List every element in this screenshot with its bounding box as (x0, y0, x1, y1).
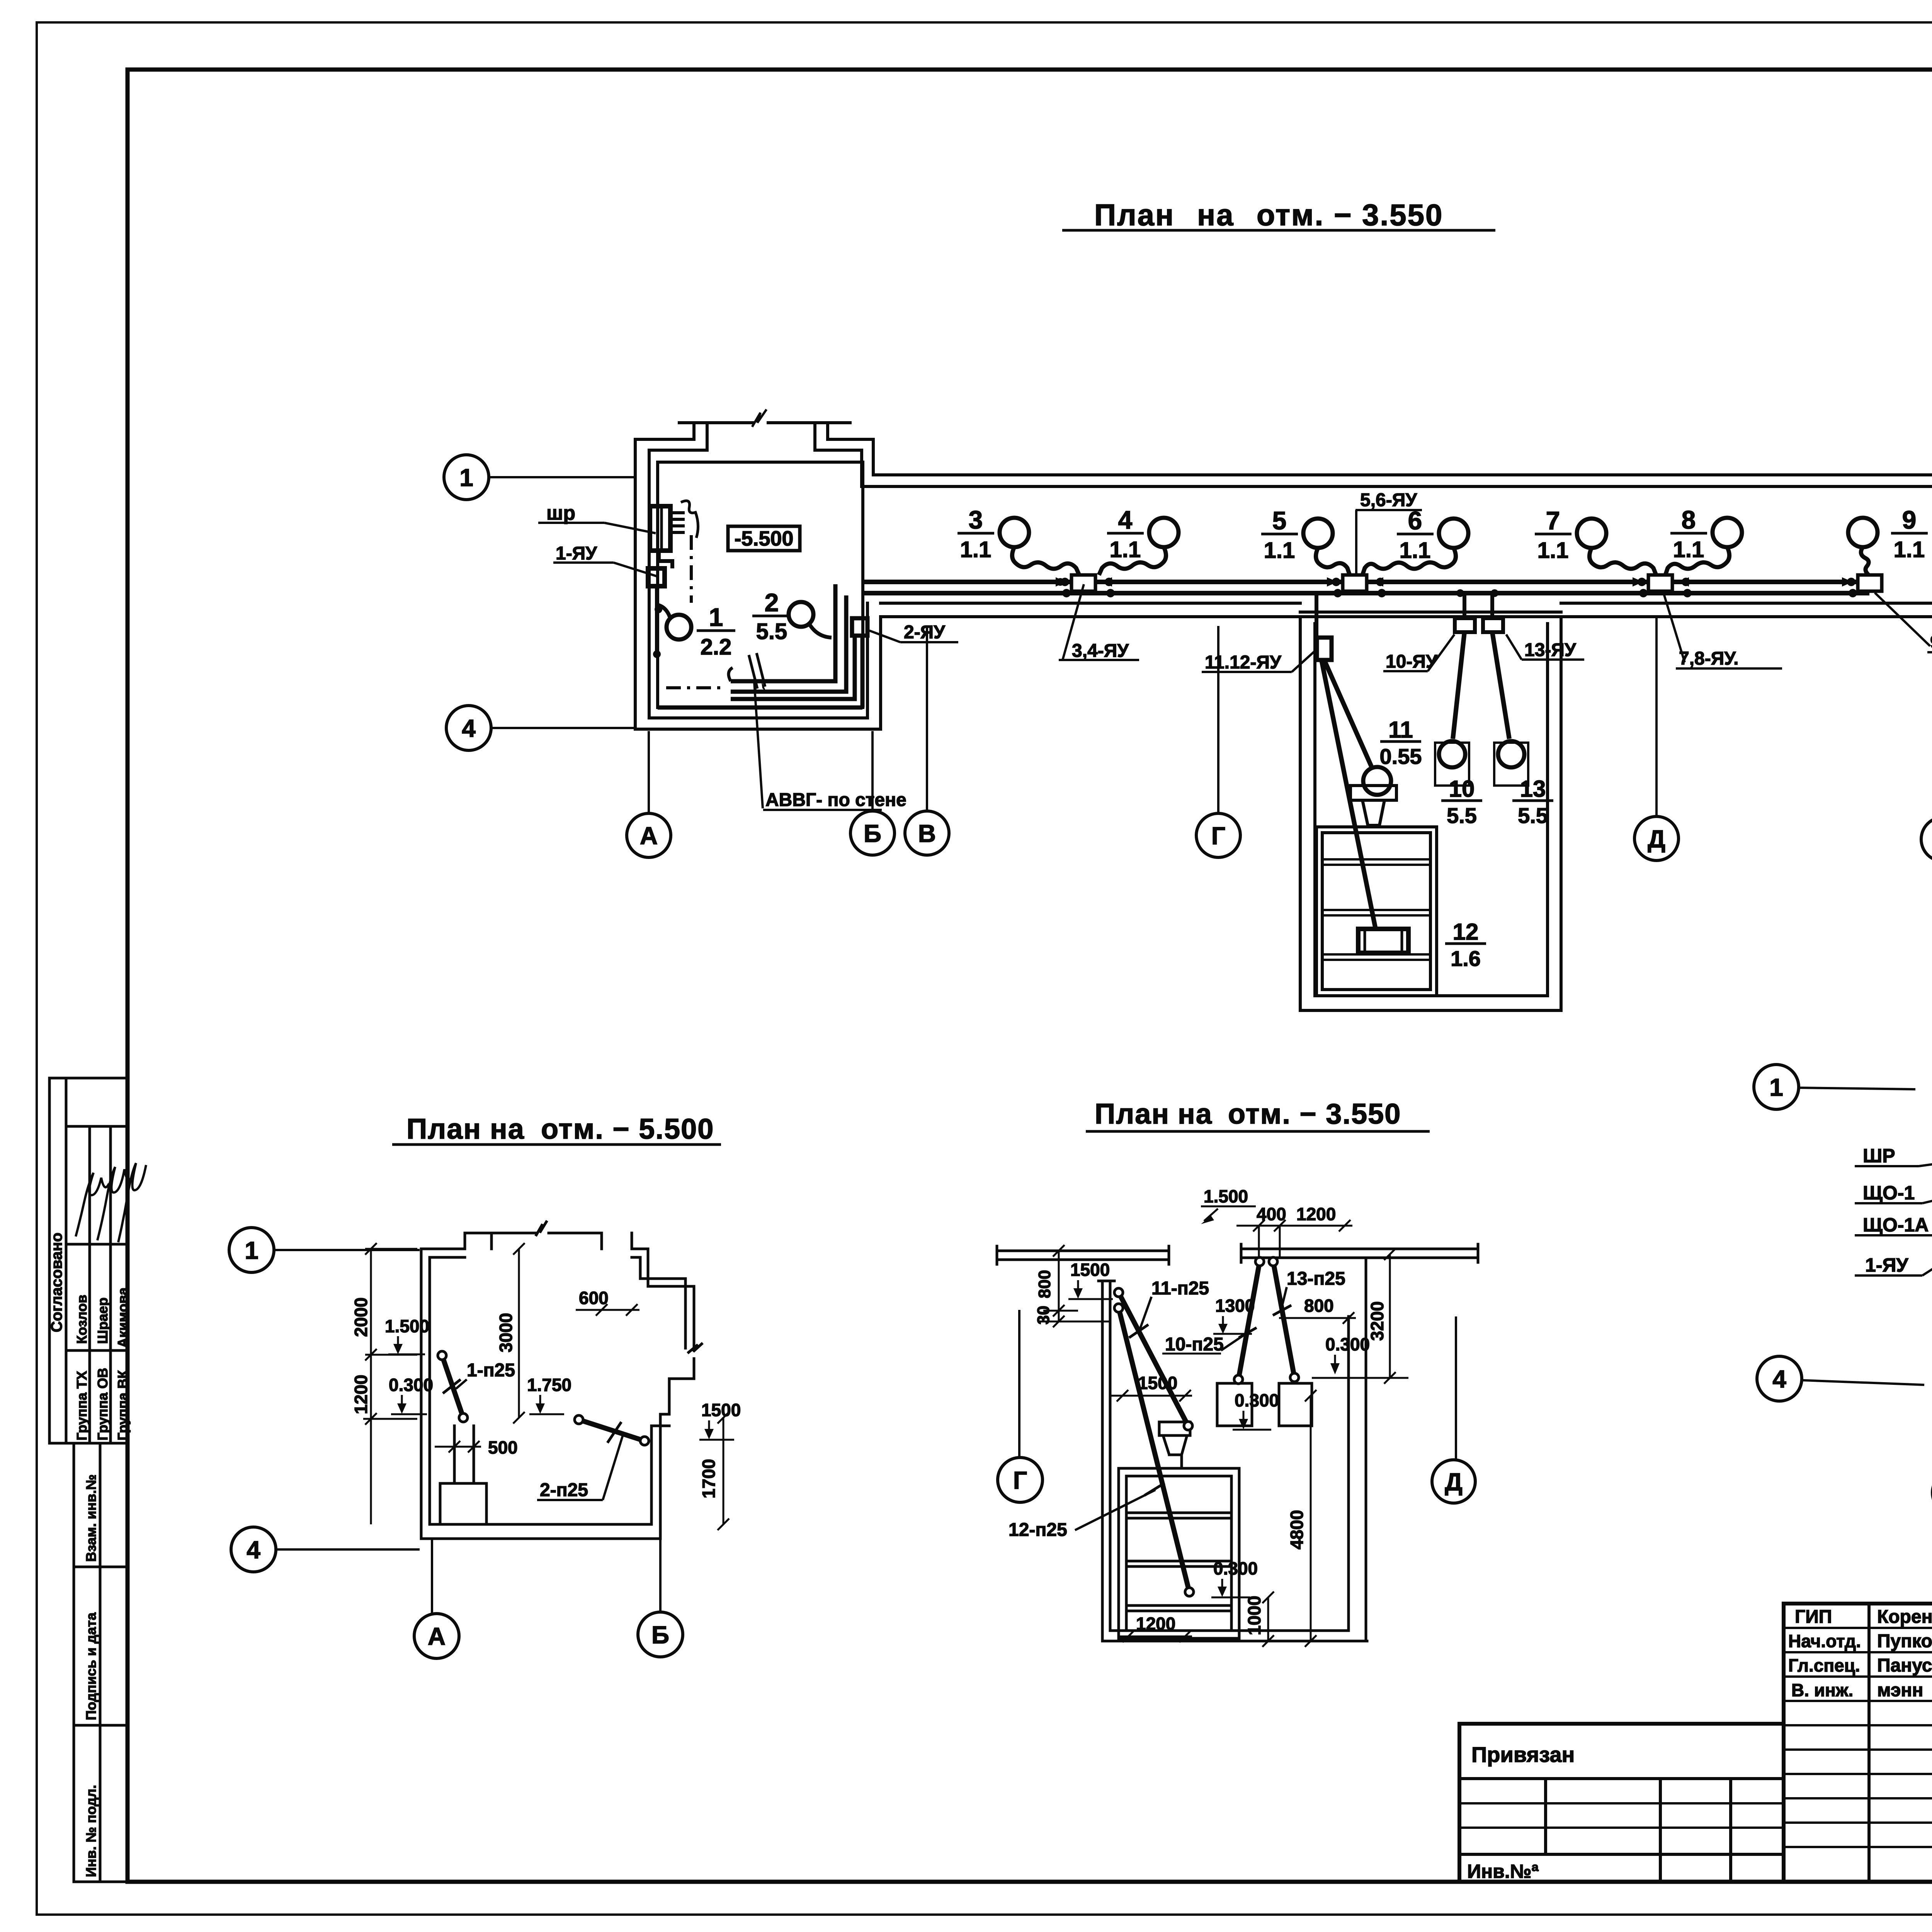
svg-text:600: 600 (579, 1288, 609, 1308)
svg-text:на: на (490, 1113, 525, 1145)
plan4 grid circle 1 (1754, 1065, 1915, 1109)
motor 2 (789, 602, 813, 627)
cabinet ШР (650, 506, 670, 551)
box 5,6-ЯУ (1343, 575, 1367, 591)
svg-text:на: на (1197, 198, 1235, 232)
motor 13 enclosure (1494, 743, 1528, 786)
svg-text:400: 400 (1257, 1204, 1286, 1224)
plan2 pedestal (440, 1483, 486, 1524)
svg-text:1500: 1500 (701, 1400, 741, 1420)
svg-text:Взам. инв.№: Взам. инв.№ (83, 1475, 99, 1562)
motor 9 cable (1861, 547, 1869, 575)
motor 10 enclosure (1435, 743, 1469, 786)
cable bundle bottom of pump room (731, 584, 835, 681)
svg-text:Группа ОВ: Группа ОВ (95, 1368, 111, 1440)
svg-text:Козлов: Козлов (74, 1295, 90, 1344)
corridor top wall inner (862, 485, 1932, 488)
elevation box -5.500 (728, 526, 800, 551)
corridor bottom wall inner (881, 602, 1932, 605)
plan2 inner wall (430, 1257, 651, 1524)
svg-text:1-ЯУ: 1-ЯУ (556, 543, 597, 564)
cable hook (729, 668, 733, 681)
svg-text:В: В (918, 820, 936, 847)
motor 12 (1358, 929, 1408, 953)
corridor bottom wall outer (881, 615, 1932, 618)
stamp staff table (1784, 1604, 1932, 1882)
switch 13-п25 (1273, 1262, 1294, 1378)
plan2 wall tower 1 (465, 1233, 492, 1249)
svg-text:0.300: 0.300 (1235, 1390, 1279, 1410)
side stamp upper box (49, 1078, 128, 1443)
motor 4 (1149, 518, 1179, 547)
svg-text:3,4-ЯУ: 3,4-ЯУ (1072, 641, 1129, 661)
svg-text:7,8-ЯУ.: 7,8-ЯУ. (1679, 648, 1738, 669)
dash-dot cable on wall vertical (690, 535, 693, 603)
grid circle Е (1921, 707, 1932, 861)
svg-text:9-ЯУ: 9-ЯУ (1930, 632, 1932, 653)
privyazan table (1459, 1724, 1784, 1882)
SIDE TABLE (49, 1078, 128, 1882)
svg-text:Нач.отд.: Нач.отд. (1788, 1631, 1861, 1651)
plan3 hopper pedestal (1159, 1422, 1190, 1435)
hopper pedestal (1350, 786, 1396, 800)
pump room wall: thin top line with break (679, 421, 850, 424)
svg-text:12: 12 (1453, 919, 1479, 945)
junction dot 3 (1491, 589, 1498, 597)
svg-text:ШР: ШР (1863, 1145, 1895, 1167)
svg-text:8: 8 (1682, 505, 1696, 534)
gallery room outer wall (1300, 617, 1561, 1010)
ШР bracket curl (681, 501, 698, 538)
svg-text:1-п25: 1-п25 (467, 1360, 515, 1381)
cable drop to 13-ЯУ (1490, 595, 1494, 618)
svg-text:1.750: 1.750 (527, 1375, 571, 1395)
svg-text:ЩО-1: ЩО-1 (1863, 1182, 1915, 1204)
svg-text:Согласовано: Согласовано (48, 1233, 65, 1332)
svg-text:800: 800 (1035, 1270, 1054, 1298)
svg-text:ГИП: ГИП (1795, 1607, 1832, 1627)
grid circle В (905, 626, 949, 855)
grid circle Г (1196, 626, 1240, 857)
plan3 bin outer (1119, 1468, 1239, 1638)
svg-text:А: А (428, 1622, 446, 1650)
plan3 bin shelves (1126, 1513, 1231, 1611)
plan -5.500 title underline (392, 1143, 721, 1146)
svg-text:5: 5 (1272, 506, 1287, 535)
pump room wall tower 2 (815, 423, 828, 450)
corridor top wall outer (873, 473, 1932, 476)
svg-text:Инв.№ª: Инв.№ª (1467, 1861, 1539, 1882)
svg-text:9: 9 (1902, 505, 1917, 534)
svg-text:1.1: 1.1 (1400, 538, 1431, 563)
corridor cable line upper (864, 580, 1869, 584)
plan3 right beam (1241, 1244, 1478, 1262)
plan3 bin inner (1126, 1476, 1231, 1631)
box 2-ЯУ (852, 618, 867, 636)
svg-text:Коренков: Коренков (1877, 1607, 1932, 1627)
svg-text:1-ЯУ: 1-ЯУ (1865, 1254, 1908, 1276)
svg-text:1: 1 (245, 1236, 259, 1264)
svg-text:1700: 1700 (699, 1459, 719, 1498)
plan3 left beam (997, 1246, 1169, 1264)
junction dot 1 (1056, 578, 1064, 586)
gallery room inner wall (1315, 624, 1548, 996)
svg-text:План: План (1095, 1098, 1170, 1130)
svg-text:1.1: 1.1 (1537, 538, 1569, 563)
dash-dot cable on wall horizontal (666, 686, 726, 689)
plan3 left wall (1099, 1281, 1114, 1641)
svg-text:АВВГ- по стене: АВВГ- по стене (765, 790, 906, 810)
svg-text:1.1: 1.1 (1673, 537, 1704, 562)
svg-text:Панус: Панус (1877, 1655, 1932, 1676)
svg-text:Гл.спец.: Гл.спец. (1788, 1655, 1860, 1675)
switch 12-п25 (1119, 1308, 1189, 1592)
svg-text:1.1: 1.1 (960, 537, 992, 562)
plan3 boxes of motors 10 13 (1217, 1383, 1252, 1426)
motor 13 (1498, 741, 1524, 767)
motor 9 (1848, 518, 1878, 547)
svg-text:Г: Г (1013, 1466, 1027, 1494)
plan4 grid circle 4 (1757, 1356, 1924, 1401)
svg-text:11: 11 (1388, 717, 1413, 743)
svg-text:800: 800 (1304, 1296, 1334, 1316)
svg-text:Группа ВК: Группа ВК (115, 1370, 131, 1440)
svg-text:1300: 1300 (1215, 1296, 1255, 1316)
svg-text:1500: 1500 (1070, 1260, 1110, 1280)
cable 10-ЯУ to motor 10 (1453, 632, 1464, 739)
svg-text:отм. − 3.550: отм. − 3.550 (1257, 198, 1443, 232)
svg-text:Б: Б (864, 820, 881, 847)
bin outer (1316, 827, 1437, 996)
svg-text:ЩО-1А: ЩО-1А (1863, 1214, 1929, 1236)
svg-text:5,6-ЯУ: 5,6-ЯУ (1360, 490, 1417, 510)
svg-text:0.300: 0.300 (1213, 1558, 1258, 1578)
svg-text:0.300: 0.300 (389, 1375, 433, 1395)
svg-text:13: 13 (1520, 776, 1546, 802)
switch 2-п25 (579, 1420, 645, 1441)
pump room outer wall (635, 439, 881, 729)
switch 1-п25 (442, 1355, 463, 1418)
plan3 right wall (1349, 1259, 1366, 1641)
motor 6 (1439, 519, 1468, 548)
plan2 grid circle Б (638, 1540, 683, 1657)
cable drop to 10-ЯУ (1463, 595, 1466, 618)
motor 5 cable (1316, 548, 1350, 575)
bin inner (1322, 833, 1430, 990)
cable break arrows (749, 653, 765, 689)
svg-text:5.5: 5.5 (756, 619, 787, 644)
svg-text:1.6: 1.6 (1451, 946, 1481, 971)
svg-text:0.55: 0.55 (1380, 744, 1422, 769)
svg-text:3200: 3200 (1367, 1301, 1387, 1341)
side stamp lower box (74, 1443, 128, 1882)
plan2 right wall upper (640, 1249, 694, 1414)
svg-text:11-п25: 11-п25 (1151, 1278, 1209, 1299)
plan2 conduit lines to pedestal (454, 1426, 474, 1483)
svg-text:1.500: 1.500 (385, 1316, 429, 1336)
grid circle 4 (446, 706, 634, 750)
plan2 thin top line with break (465, 1232, 602, 1235)
svg-text:1.1: 1.1 (1264, 538, 1295, 563)
plan3 grid circle Г (998, 1310, 1043, 1502)
box 10-ЯУ (1455, 618, 1475, 632)
cable step ШР to 1-ЯУ (659, 551, 672, 568)
svg-text:шр: шр (546, 502, 575, 524)
svg-text:1: 1 (459, 464, 473, 492)
plan3 hopper funnel (1163, 1435, 1187, 1468)
svg-text:1: 1 (709, 603, 723, 631)
plan2 left dim line (363, 1243, 417, 1524)
svg-text:1200: 1200 (1296, 1204, 1336, 1224)
svg-text:2-ЯУ: 2-ЯУ (904, 622, 946, 643)
svg-text:В. инж.: В. инж. (1791, 1680, 1853, 1700)
pump room pit outline (658, 462, 863, 707)
svg-text:на: на (1178, 1098, 1213, 1130)
hopper funnel (1362, 800, 1384, 825)
motor 2 cable tail (809, 624, 832, 638)
box 7,8-ЯУ (1648, 575, 1672, 591)
plan2 wall break symbol (536, 1222, 546, 1235)
svg-text:2: 2 (765, 588, 779, 617)
motor 1 (667, 615, 691, 639)
svg-text:Пупков: Пупков (1877, 1631, 1932, 1651)
plan2 grid circle А (414, 1540, 459, 1658)
svg-text:Подпись и дата: Подпись и дата (83, 1612, 99, 1720)
bin shelves (1322, 859, 1430, 960)
svg-text:4: 4 (1118, 505, 1133, 534)
cable arrows at boxes (1056, 577, 1853, 587)
corridor cable line lower (864, 591, 1869, 595)
plan2 grid circle 1 (229, 1228, 420, 1272)
cable 11.12-ЯУ to motor 12 (1321, 660, 1376, 929)
motor 5 (1303, 519, 1333, 548)
plan2 outer wall (421, 1249, 660, 1539)
plan2 right wall break (689, 1344, 702, 1352)
svg-text:5.5: 5.5 (1447, 803, 1477, 828)
motor 7 cable (1589, 548, 1656, 575)
motor 4 cable (1099, 547, 1166, 575)
TITLE BLOCK (1459, 1604, 1932, 1882)
plan middle title underline (1086, 1130, 1430, 1133)
svg-text:4800: 4800 (1287, 1510, 1307, 1549)
grid circle А (627, 731, 671, 857)
cable 13-ЯУ to motor 13 (1492, 632, 1509, 739)
svg-text:Б: Б (651, 1621, 669, 1649)
ШР busbar teeth (672, 513, 685, 532)
motor 3 cable (1012, 547, 1079, 575)
svg-text:Г: Г (1211, 822, 1225, 850)
svg-text:4: 4 (1772, 1365, 1786, 1393)
motor 11 (1363, 767, 1391, 795)
svg-text:3000: 3000 (496, 1313, 516, 1352)
motor 10 (1439, 741, 1465, 767)
cable drop to 11.12-ЯУ (1315, 595, 1318, 638)
svg-text:мэнн: мэнн (1877, 1680, 1923, 1701)
svg-text:2000: 2000 (351, 1298, 371, 1337)
box 9-ЯУ (1858, 575, 1882, 591)
motor 7 (1577, 519, 1606, 548)
svg-text:2.2: 2.2 (701, 634, 732, 660)
svg-text:Группа ТХ: Группа ТХ (74, 1371, 90, 1440)
junction dot 2 (1456, 589, 1464, 597)
svg-text:отм. − 5.500: отм. − 5.500 (541, 1113, 714, 1145)
svg-text:Инв. № подл.: Инв. № подл. (83, 1785, 99, 1877)
pump room inner wall (649, 450, 867, 718)
svg-text:13-п25: 13-п25 (1287, 1269, 1345, 1289)
plan3 bottom wall (1102, 1631, 1367, 1641)
plan2 wall tower 2 (602, 1233, 632, 1249)
main plan title underline (1062, 229, 1495, 232)
svg-text:7: 7 (1546, 506, 1560, 535)
svg-text:4: 4 (462, 714, 476, 742)
signature squiggle 1 (76, 1173, 109, 1236)
svg-text:отм. − 3.550: отм. − 3.550 (1228, 1098, 1401, 1130)
svg-text:12-п25: 12-п25 (1009, 1520, 1067, 1540)
grid circle Д (1634, 618, 1679, 861)
grid circle 1 (444, 455, 634, 500)
motor 6 cable (1362, 548, 1456, 575)
junction dot (653, 650, 661, 658)
svg-text:5.5: 5.5 (1518, 803, 1548, 828)
svg-text:3: 3 (969, 505, 983, 534)
switch 10-п25 (1238, 1262, 1260, 1379)
switch 11-п25 (1119, 1293, 1188, 1426)
svg-text:13-ЯУ: 13-ЯУ (1524, 640, 1577, 660)
cable branch to motor 1 (657, 605, 670, 617)
svg-text:План: План (1094, 198, 1175, 232)
signature squiggle 3 (118, 1163, 146, 1242)
svg-text:1.1: 1.1 (1894, 537, 1925, 562)
box 11.12-ЯУ (1317, 638, 1332, 660)
svg-text:-5.500: -5.500 (734, 527, 793, 550)
svg-text:Д: Д (1648, 825, 1665, 853)
svg-text:10: 10 (1449, 776, 1475, 802)
svg-text:1: 1 (1769, 1073, 1783, 1101)
motor 3 (1000, 518, 1029, 547)
motor 8 (1713, 518, 1742, 547)
svg-text:1000: 1000 (1244, 1596, 1264, 1635)
plan3 grid circle Д (1432, 1316, 1475, 1503)
svg-text:Акимова: Акимова (115, 1287, 131, 1348)
signature squiggle 2 (97, 1167, 132, 1240)
svg-text:4: 4 (247, 1536, 260, 1564)
svg-text:1500: 1500 (1138, 1373, 1177, 1393)
cable 11.12-ЯУ to motor 11 (1324, 660, 1372, 769)
svg-text:План: План (406, 1113, 481, 1145)
pump room wall tower 1 (694, 423, 707, 450)
svg-text:Привязан: Привязан (1471, 1742, 1575, 1767)
svg-text:1200: 1200 (351, 1375, 371, 1414)
cable from 1-ЯУ down (655, 586, 659, 652)
junction dot (655, 605, 662, 613)
svg-text:1.500: 1.500 (1204, 1186, 1248, 1206)
svg-text:10-п25: 10-п25 (1165, 1334, 1224, 1355)
svg-text:0.300: 0.300 (1325, 1334, 1370, 1354)
svg-text:1200: 1200 (1136, 1614, 1175, 1634)
box 1-ЯУ (648, 568, 665, 586)
cable stub dots at boxes (1061, 578, 1069, 586)
box 13-ЯУ (1483, 618, 1503, 632)
plan2 right wall lower (651, 1414, 669, 1524)
gallery room top inner edge (1300, 611, 1561, 614)
svg-text:Д: Д (1445, 1468, 1463, 1496)
svg-text:11.12-ЯУ: 11.12-ЯУ (1205, 652, 1282, 673)
wall break symbol (753, 410, 766, 426)
box 3,4-ЯУ (1071, 575, 1095, 591)
svg-text:1.1: 1.1 (1110, 537, 1141, 562)
plan2 grid circle 4 (231, 1527, 420, 1572)
motor 8 cable (1665, 547, 1730, 575)
grid circle Б (850, 731, 895, 855)
svg-text:Шраер: Шраер (95, 1298, 111, 1344)
svg-text:2-п25: 2-п25 (540, 1480, 588, 1500)
svg-text:А: А (640, 822, 658, 850)
svg-text:500: 500 (488, 1437, 518, 1458)
